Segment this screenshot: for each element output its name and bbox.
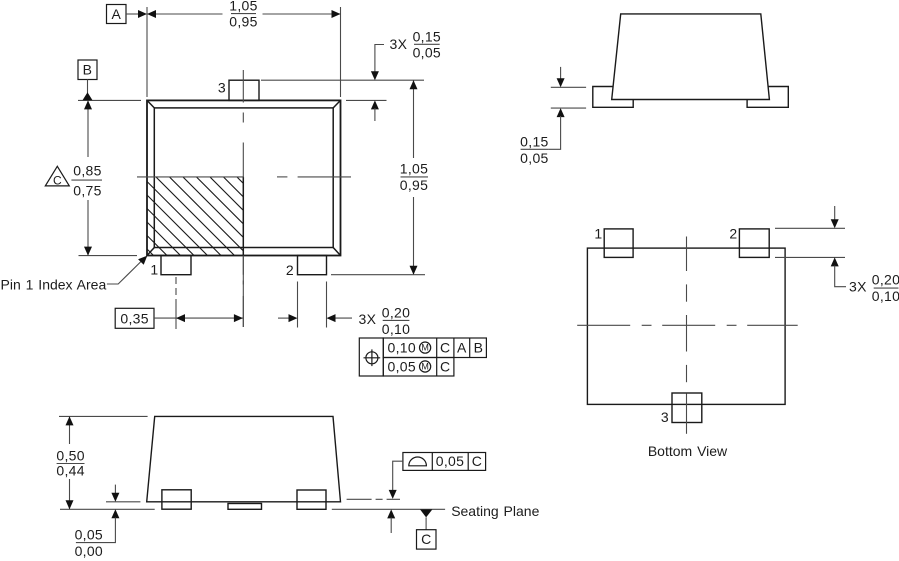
- front view dimension 0,15/0,05: value text: [520, 134, 548, 166]
- top view: pin 3 (top lead): [229, 80, 259, 100]
- datum A feature symbol: [107, 5, 148, 24]
- bottom view: pin 1 label: [594, 226, 602, 242]
- datum C target flag (triangle with C): [45, 166, 69, 187]
- svg-text:3X: 3X: [390, 36, 408, 52]
- feature control frame row 1: 0,10 (M) C A B: [388, 340, 484, 356]
- svg-text:C: C: [421, 531, 431, 547]
- top view: pin 1 index area hatching: [147, 87, 243, 345]
- profile tolerance leader with down arrow: [389, 461, 403, 499]
- side view: center die pad tab: [228, 504, 262, 510]
- dimension 0,35: dimension line and arrowheads: [154, 314, 243, 322]
- svg-text:0,05: 0,05: [413, 44, 441, 60]
- dimension 0,35: package centerline extension: [242, 256, 244, 327]
- top view: pin 2 (bottom-right lead): [298, 256, 327, 275]
- front view dimension 0,15/0,05: arrows: [548, 67, 565, 149]
- svg-text:3: 3: [661, 409, 669, 425]
- bottom view dimension 3X 0,20/0,10: arrows: [831, 206, 846, 287]
- feature control frame row 2: 0,05 (M) C: [388, 359, 451, 375]
- svg-text:2: 2: [286, 262, 294, 278]
- dimension 0,05/0,00 (standoff): body-bottom extension line: [106, 501, 140, 503]
- bottom view: package body outline: [587, 248, 785, 404]
- svg-text:0,10: 0,10: [388, 340, 416, 356]
- dimension 0,50/0,44: value text: [56, 448, 84, 479]
- dimension 3X 0,20/0,10: outside arrows: [278, 314, 352, 322]
- up arrow at seating plane (tolerance zone): [387, 509, 395, 533]
- dimension 0,50/0,44: top extension line: [59, 415, 148, 417]
- svg-text:C: C: [440, 359, 450, 375]
- svg-text:1: 1: [150, 262, 158, 278]
- bottom view: horizontal centerline: [577, 324, 798, 326]
- dimension 1,05/0,95 horizontal: right extension line: [340, 7, 342, 97]
- position symbol: [364, 349, 381, 366]
- svg-text:3: 3: [218, 80, 226, 96]
- dimension 3X 0,20/0,10: right extension line: [326, 282, 328, 328]
- svg-text:1,05: 1,05: [229, 0, 257, 14]
- bottom view: pin 2 pad: [739, 229, 769, 258]
- svg-text:0,75: 0,75: [73, 183, 101, 199]
- svg-text:0,44: 0,44: [56, 463, 84, 479]
- dimension 0,05/0,00: value text: [75, 527, 103, 559]
- bottom view dimension 3X 0,20/0,10: extension lines: [775, 228, 845, 257]
- bottom view: pin 3 pad: [672, 393, 702, 423]
- svg-text:0,05: 0,05: [520, 150, 548, 166]
- top view: pin 3 number label: [218, 80, 226, 96]
- svg-text:B: B: [83, 62, 93, 78]
- side view: left pin: [162, 490, 191, 509]
- front view: right pin: [747, 87, 788, 108]
- svg-text:C: C: [472, 453, 482, 469]
- svg-text:0,05: 0,05: [436, 453, 464, 469]
- dimension 0,35: pin 1 centerline extension (dashed then solid): [175, 277, 177, 329]
- bottom view: pin 2 label: [729, 226, 737, 242]
- dimension 3X 0,15/0,05: leader with down arrow: [371, 45, 384, 81]
- side view: package body outline: [147, 416, 341, 501]
- top view: pin 1 (bottom-left lead): [161, 256, 191, 275]
- bottom view caption: [648, 443, 728, 459]
- svg-text:3X: 3X: [849, 279, 867, 295]
- body-bottom dashed reference line (right of body): [347, 498, 400, 500]
- dimension 3X 0,15/0,05: value text: [390, 28, 442, 60]
- svg-text:0,95: 0,95: [229, 14, 257, 30]
- dimension 1,05/0,95 horizontal: value text: [229, 0, 257, 30]
- svg-text:1,05: 1,05: [400, 161, 428, 177]
- top view: package body inner (mold chamfer) outline: [147, 100, 341, 255]
- bottom view dimension 3X 0,20/0,10: value text: [849, 272, 899, 305]
- svg-text:0,35: 0,35: [120, 310, 148, 326]
- top view: pin 1 number label: [150, 262, 158, 278]
- front view dimension 0,15/0,05: extension lines: [551, 87, 586, 108]
- svg-text:0,05: 0,05: [75, 527, 103, 543]
- svg-text:M: M: [421, 362, 429, 372]
- dimension 3X 0,20/0,10: value text: [359, 305, 411, 338]
- svg-text:2: 2: [729, 226, 737, 242]
- svg-text:0,20: 0,20: [382, 305, 410, 321]
- dimension 0,35 (pin 1 center to package center): boxed text: [115, 308, 154, 328]
- bottom view: vertical centerline: [686, 237, 688, 434]
- dimension 0,85/0,75 (left): value text: [71, 163, 102, 199]
- datum C feature symbol (below seating plane): [417, 509, 437, 549]
- dimension 3X 0,15/0,05: extension line at body edge: [346, 99, 387, 101]
- seating plane line: [60, 508, 445, 510]
- front view: package body outline: [612, 14, 770, 100]
- bottom view: pin 1 pad: [604, 229, 633, 258]
- dimension 0,85/0,75 (left): bottom extension line: [79, 255, 138, 257]
- svg-text:0,15: 0,15: [520, 134, 548, 150]
- svg-text:C: C: [440, 340, 450, 356]
- svg-text:B: B: [474, 340, 484, 356]
- dimension 0,85/0,75 (left): dimension line and arrowheads: [84, 100, 92, 255]
- dimension 3X 0,20/0,10 (pin width): left extension line: [297, 282, 299, 328]
- front view: left pin: [593, 87, 633, 108]
- svg-text:1: 1: [594, 226, 602, 242]
- dimension 1,05/0,95 horizontal: left extension line: [146, 7, 148, 97]
- svg-text:0,50: 0,50: [56, 448, 84, 464]
- svg-text:A: A: [457, 340, 467, 356]
- svg-text:0,10: 0,10: [872, 288, 899, 304]
- dimension 0,85/0,75 (left): top extension line: [78, 99, 141, 101]
- svg-text:M: M: [421, 343, 429, 353]
- pin 1 index area label and leader: [1, 256, 148, 293]
- top view: package body outer outline: [147, 100, 341, 255]
- svg-text:0,85: 0,85: [73, 163, 101, 179]
- top view: horizontal centerline: [137, 176, 351, 178]
- datum B feature symbol: [78, 60, 97, 100]
- top view: vertical centerline: [242, 70, 244, 327]
- svg-text:0,00: 0,00: [75, 543, 103, 559]
- dimension 1,05/0,95 horizontal: dimension line and arrowheads: [147, 10, 341, 18]
- dimension 0,50/0,44: dimension line and arrowheads: [66, 416, 74, 509]
- seating plane label: [451, 503, 539, 519]
- profile tolerance feature control frame (seating plane): [403, 453, 486, 471]
- svg-text:0,05: 0,05: [388, 359, 416, 375]
- dimension 3X 0,15/0,05: up arrow below: [371, 100, 379, 121]
- dimension 1,05/0,95 vertical: value text: [400, 161, 428, 194]
- svg-text:A: A: [111, 6, 121, 22]
- side view: right pin: [297, 490, 326, 509]
- svg-text:0,10: 0,10: [382, 321, 410, 337]
- position tolerance feature control frame: [359, 338, 486, 376]
- dimension 1,05/0,95 vertical: bottom extension line: [331, 274, 425, 276]
- svg-text:Bottom View: Bottom View: [648, 443, 728, 459]
- svg-text:0,95: 0,95: [400, 177, 428, 193]
- dimension 1,05/0,95 vertical (right): dimension line and arrowheads: [410, 80, 418, 275]
- svg-text:0,20: 0,20: [872, 272, 899, 288]
- top view: pin 2 number label: [286, 262, 294, 278]
- top view: hatch right boundary line: [242, 177, 244, 256]
- svg-text:C: C: [53, 174, 62, 188]
- dimension 0,05/0,00: arrows: [102, 485, 119, 543]
- svg-text:Pin 1 Index Area: Pin 1 Index Area: [1, 277, 107, 293]
- svg-text:Seating Plane: Seating Plane: [451, 503, 539, 519]
- svg-text:0,15: 0,15: [413, 28, 441, 44]
- dimension 3X 0,15/0,05 (pin 3 length): extension line at pin tip: [261, 79, 424, 81]
- svg-text:3X: 3X: [359, 311, 377, 327]
- bottom view: pin 3 label: [661, 409, 669, 425]
